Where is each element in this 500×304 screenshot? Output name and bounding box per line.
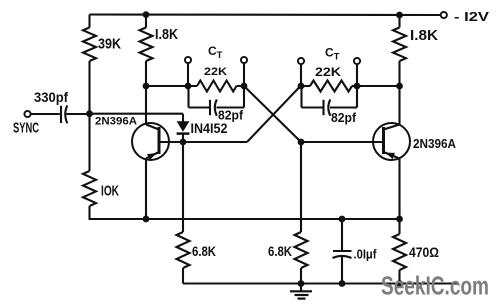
resistor 22K right <box>310 81 352 92</box>
capacitor 82pf right bracket <box>300 86 302 108</box>
resistor 470 ohm <box>393 234 406 270</box>
svg-text:IOK: IOK <box>101 183 119 200</box>
svg-text:470Ω: 470Ω <box>409 244 439 260</box>
wire 39K top lead <box>88 15 90 28</box>
transistor Q1 2N396A (mirrored) <box>132 123 169 160</box>
capacitor 82pf left plates <box>209 100 211 115</box>
wire Q2 emitter lead <box>398 159 400 220</box>
terminal CT left A <box>185 57 191 63</box>
wire 1.8K right top lead <box>398 15 400 28</box>
svg-text:- I2V: - I2V <box>454 9 489 24</box>
wire ground bus <box>183 282 457 284</box>
node Q2 emitter junction <box>396 216 403 223</box>
wire CT terminal lead right B <box>356 62 358 87</box>
svg-text:IN4I52: IN4I52 <box>191 120 228 136</box>
wire 22K right to collector node <box>357 85 400 87</box>
node CT right terminal A <box>298 83 305 90</box>
wire 39K to 10K / sync node <box>88 61 90 171</box>
node CT left terminal A <box>185 83 192 90</box>
node Q1 collector <box>143 83 150 90</box>
node .01uf bottom junction <box>339 280 346 287</box>
wire CT terminal lead left A <box>187 61 189 87</box>
node 470 ground junction <box>396 280 403 287</box>
wire cross-coupling diagonal Q2-collector-side down-left <box>247 86 301 142</box>
terminal CT right A <box>298 58 304 64</box>
node 1.8K right rail junction <box>396 12 403 19</box>
svg-text:2N396A: 2N396A <box>413 137 456 151</box>
wire 470 top lead <box>398 219 400 234</box>
node 1.8K left rail junction <box>143 11 150 18</box>
wire 470 bottom lead <box>398 270 400 284</box>
wire 1.8K left bottom lead <box>145 61 147 86</box>
node Q2 collector <box>396 83 403 90</box>
node CT right terminal B <box>354 83 361 90</box>
wire collector node to 22K left <box>146 85 197 87</box>
wire 6.8K left bottom lead <box>182 268 184 284</box>
wire 1.8K left top lead <box>145 15 147 28</box>
wire 22K left right lead <box>237 85 245 87</box>
wire 10K bottom lead <box>88 206 90 219</box>
wire -12V supply rail <box>90 13 441 16</box>
terminal SYNC input <box>24 111 30 117</box>
transistor Q2 2N396A <box>373 123 410 160</box>
resistor 6.8K left <box>177 232 190 268</box>
node sync / 39K-10K junction <box>86 110 93 117</box>
wire 330pf to sync node <box>66 113 89 115</box>
capacitor .01uf <box>341 219 343 251</box>
wire Q1 emitter lead <box>145 159 147 220</box>
resistor 1.8K right <box>393 28 406 62</box>
node Q1 base junction <box>180 139 187 146</box>
wire trigger line to diode <box>90 113 184 115</box>
wire SYNC to 330pf <box>31 113 60 115</box>
svg-text:39K: 39K <box>98 36 121 53</box>
wire 1.8K right bottom lead <box>398 61 400 86</box>
wire Q2 base node down to 6.8K <box>300 142 302 232</box>
resistor 39K <box>83 28 96 62</box>
resistor 22K left <box>197 81 237 92</box>
svg-text:6.8K: 6.8K <box>192 243 216 259</box>
wire CT terminal lead left B <box>243 61 245 87</box>
node 22K left right junction <box>241 83 248 90</box>
capacitor 82pf right plates <box>322 100 324 115</box>
wire emitter bus <box>89 218 400 220</box>
svg-text:330pf: 330pf <box>34 90 68 105</box>
svg-text:I.8K: I.8K <box>155 26 178 43</box>
node Q2 base junction <box>298 139 305 146</box>
svg-text:SeekIC.com: SeekIC.com <box>381 271 489 301</box>
wire cross-coupling diagonal Q1-collector-side to Q2 base <box>244 86 301 142</box>
wire CT terminal lead right A <box>300 62 302 87</box>
wire 6.8K right bottom lead <box>300 268 302 284</box>
svg-text:I.8K: I.8K <box>410 27 438 44</box>
svg-text:SYNC: SYNC <box>13 120 39 137</box>
terminal -12V <box>441 12 447 18</box>
node Q1 emitter junction <box>143 216 150 223</box>
svg-text:22K: 22K <box>315 65 341 79</box>
svg-text:2N396A: 2N396A <box>95 116 137 128</box>
resistor 1.8K left <box>140 28 153 62</box>
resistor 6.8K right <box>295 232 308 268</box>
capacitor 330pf <box>60 106 62 123</box>
resistor 10K <box>83 171 96 206</box>
wire cross-coupling horizontal into Q1 base node <box>183 141 247 143</box>
svg-text:6.8K: 6.8K <box>268 243 292 259</box>
svg-text:.0Iμf: .0Iμf <box>354 247 378 262</box>
wire Q1 base node down to 6.8K <box>182 142 184 232</box>
node .01uf top junction <box>339 216 346 223</box>
diode 1N4152 <box>182 114 184 122</box>
capacitor 82pf left bracket <box>187 86 189 108</box>
node ground junction <box>298 280 305 287</box>
svg-text:82pf: 82pf <box>331 111 357 125</box>
terminal CT left B <box>241 57 247 63</box>
terminal CT right B <box>354 58 360 64</box>
svg-text:22K: 22K <box>204 66 227 78</box>
ground <box>300 284 302 292</box>
